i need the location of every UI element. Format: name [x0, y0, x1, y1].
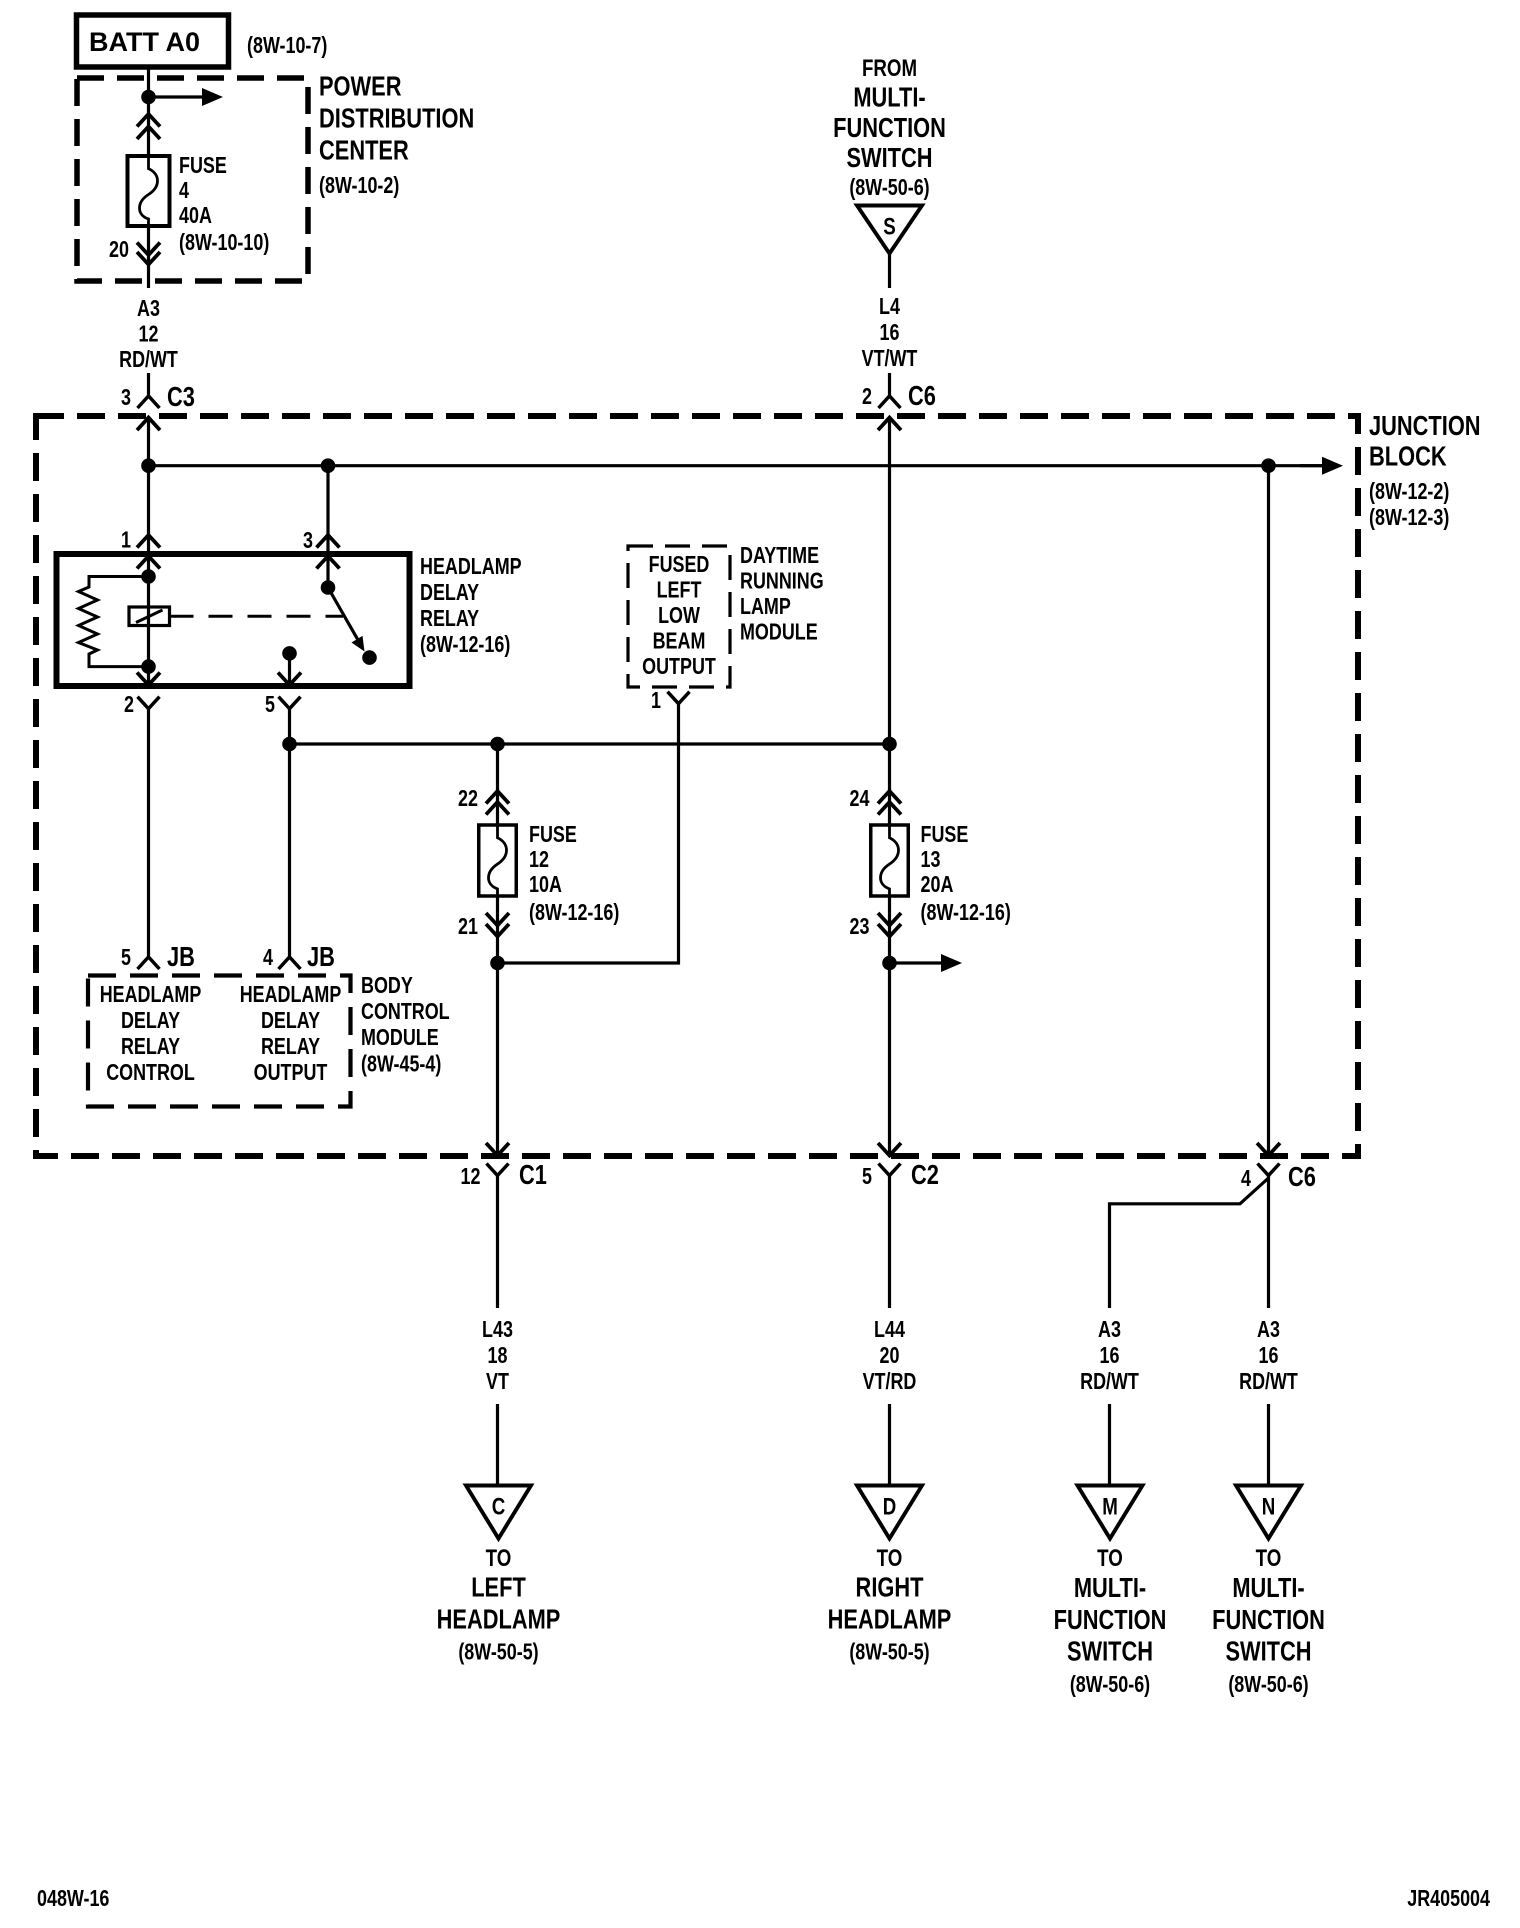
svg-text:VT/WT: VT/WT [862, 346, 918, 372]
wire C1 to left headlamp [496, 1176, 499, 1486]
pin 5 label relay [265, 692, 275, 718]
off-page connector triangle S [857, 206, 922, 254]
connector C1 female fork [487, 1164, 509, 1176]
connector chevrons out of PDC pin 20 [137, 243, 160, 265]
svg-text:(8W-45-4): (8W-45-4) [361, 1051, 441, 1077]
arrow branch from fuse 13 output [890, 954, 963, 972]
power distribution center dashed box [77, 78, 308, 281]
relay pin 3 chevrons [317, 535, 340, 569]
connector C6 female fork top [879, 396, 901, 408]
wire DRL pin 1 down and left to fuse 12 output [498, 704, 679, 963]
wire bus2 down to fuse 12 [496, 744, 499, 825]
label TO LEFT HEADLAMP (8W-50-5) [437, 1545, 561, 1665]
wire label L44 20 VT/RD [863, 1317, 917, 1395]
wire C2 to right headlamp [888, 1176, 891, 1486]
svg-text:(8W-50-6): (8W-50-6) [1228, 1672, 1308, 1698]
svg-text:22: 22 [458, 786, 478, 812]
svg-text:(8W-50-6): (8W-50-6) [1070, 1672, 1150, 1698]
svg-text:RELAY: RELAY [420, 606, 479, 632]
svg-text:OUTPUT: OUTPUT [642, 654, 716, 680]
relay switch contact dot [362, 650, 377, 665]
headlamp delay relay box [57, 554, 410, 686]
svg-text:12: 12 [529, 847, 549, 873]
drawing number JR405004 [1407, 1886, 1490, 1912]
svg-text:BODY: BODY [361, 973, 413, 999]
svg-text:BEAM: BEAM [653, 628, 706, 654]
fuse 12 output junction dot [490, 956, 505, 971]
svg-text:1: 1 [651, 688, 661, 714]
svg-text:40A: 40A [179, 203, 212, 229]
label FUSE 4 40A (8W-10-10) [179, 153, 269, 256]
bus junction dot at relay pin 3 [321, 458, 336, 473]
connector C6 female fork bottom [1258, 1164, 1280, 1176]
svg-text:FUSE: FUSE [921, 822, 969, 848]
bus wire across junction block [149, 464, 1325, 467]
svg-text:L4: L4 [879, 294, 900, 320]
svg-text:(8W-12-3): (8W-12-3) [1369, 505, 1449, 531]
relay pin 1 chevrons [137, 535, 160, 569]
relay coil top junction dot [141, 569, 156, 584]
daytime running lamp module dashed box [628, 546, 730, 687]
wire C6 to multi-function switch N [1267, 1176, 1270, 1486]
svg-text:5: 5 [265, 692, 275, 718]
relay pin 5 female fork [279, 697, 301, 709]
label FROM MULTI-FUNCTION SWITCH (8W-50-6) [833, 55, 946, 201]
svg-text:SWITCH: SWITCH [1067, 1636, 1153, 1667]
wire label A3 12 RD/WT [119, 296, 178, 373]
connector C2 female fork [879, 1164, 901, 1176]
wire fuse 13 down to connector C2 [888, 896, 891, 1156]
svg-text:DELAY: DELAY [261, 1008, 320, 1034]
svg-text:A3: A3 [137, 296, 160, 322]
wire label L4 16 VT/WT [862, 294, 918, 372]
pin 12 label [461, 1164, 481, 1190]
off-page connector triangle D [857, 1486, 922, 1539]
relay pin 5 inner chevron [278, 673, 301, 686]
svg-text:BLOCK: BLOCK [1369, 441, 1447, 472]
svg-text:13: 13 [921, 847, 941, 873]
svg-text:L43: L43 [482, 1317, 513, 1343]
pin 1 label relay [121, 527, 131, 553]
svg-text:C1: C1 [519, 1159, 547, 1190]
pin 2 label [862, 384, 872, 410]
arrow branch to other circuits [149, 88, 224, 106]
svg-text:24: 24 [850, 786, 870, 812]
wire fuse 12 down to connector C1 [496, 896, 499, 1156]
wire relay pin 5 to BCM pin 4 [288, 709, 291, 957]
connector C6 male arrow into junction block [878, 418, 901, 431]
fuse 13 output junction dot [882, 956, 897, 971]
svg-text:16: 16 [880, 320, 900, 346]
svg-text:MULTI-: MULTI- [1074, 1572, 1146, 1603]
body control module dashed box [88, 976, 351, 1107]
svg-text:VT: VT [486, 1369, 509, 1395]
svg-text:JUNCTION: JUNCTION [1369, 410, 1481, 441]
svg-text:16: 16 [1259, 1343, 1279, 1369]
svg-text:CENTER: CENTER [319, 135, 409, 166]
svg-text:SWITCH: SWITCH [1225, 1636, 1311, 1667]
svg-text:RELAY: RELAY [261, 1034, 320, 1060]
svg-text:MODULE: MODULE [740, 619, 818, 645]
svg-text:TO: TO [486, 1545, 512, 1572]
fuse 12 pin 22 chevrons [486, 791, 509, 815]
svg-text:(8W-50-5): (8W-50-5) [458, 1639, 538, 1665]
svg-text:L44: L44 [874, 1317, 905, 1343]
relay pin 5 dot [282, 646, 297, 661]
svg-text:MULTI-: MULTI- [1232, 1572, 1304, 1603]
off-page connector triangle C [466, 1486, 531, 1539]
wire label A3 16 RD/WT right [1239, 1317, 1298, 1395]
bus junction dot left [141, 458, 156, 473]
wire C3 down to relay pin 1 [147, 418, 150, 577]
svg-text:S: S [883, 213, 895, 240]
svg-text:4: 4 [179, 178, 189, 204]
svg-text:C3: C3 [167, 381, 195, 412]
connector JB label left [167, 941, 195, 972]
wire label A3 16 RD/WT left [1080, 1317, 1139, 1395]
pin 20 label [109, 237, 129, 263]
svg-text:4: 4 [263, 945, 273, 971]
wire bus down to relay pin 3 [326, 466, 329, 588]
svg-text:3: 3 [121, 385, 131, 411]
label JUNCTION BLOCK (8W-12-2) (8W-12-3) [1369, 410, 1481, 530]
BCM pin 4 female fork [279, 957, 301, 969]
connector C1 label [519, 1159, 547, 1190]
wire C6 down to fuse 13 [888, 418, 891, 825]
relay coil resistor [79, 577, 149, 667]
svg-text:C6: C6 [908, 380, 936, 411]
connector C3 label [167, 381, 195, 412]
off-page connector triangle M [1078, 1486, 1143, 1539]
label DAYTIME RUNNING LAMP MODULE [740, 543, 824, 645]
svg-text:MODULE: MODULE [361, 1025, 439, 1051]
svg-text:N: N [1262, 1493, 1276, 1520]
svg-text:16: 16 [1100, 1343, 1120, 1369]
label FUSE 12 10A (8W-12-16) [529, 822, 619, 926]
wire bus right down to connector C6 [1267, 466, 1270, 1156]
svg-text:DELAY: DELAY [420, 580, 479, 606]
svg-text:HEADLAMP: HEADLAMP [420, 554, 522, 580]
junction block dashed box [36, 416, 1358, 1156]
svg-text:POWER: POWER [319, 71, 401, 102]
wire branch C6 to multi-function switch M [1110, 1178, 1269, 1485]
pin 4 label JB [263, 945, 273, 971]
svg-text:A3: A3 [1098, 1317, 1121, 1343]
svg-text:20: 20 [880, 1343, 900, 1369]
junction dot under BATT A0 [141, 90, 156, 105]
svg-text:JR405004: JR405004 [1407, 1886, 1490, 1912]
svg-text:FUSE: FUSE [179, 153, 227, 179]
label BODY CONTROL MODULE (8W-45-4) [361, 973, 450, 1077]
svg-text:10A: 10A [529, 872, 562, 898]
label TO MULTI-FUNCTION SWITCH left [1054, 1545, 1167, 1698]
relay coil bottom junction dot [141, 659, 156, 674]
svg-text:FUSE: FUSE [529, 822, 577, 848]
pin 1 label DRL [651, 688, 661, 714]
svg-text:18: 18 [488, 1343, 508, 1369]
label HEADLAMP DELAY RELAY OUTPUT [240, 982, 342, 1086]
svg-text:FUNCTION: FUNCTION [833, 112, 946, 143]
svg-text:2: 2 [124, 692, 134, 718]
svg-text:RELAY: RELAY [121, 1034, 180, 1060]
svg-text:(8W-12-2): (8W-12-2) [1369, 479, 1449, 505]
svg-text:3: 3 [303, 528, 313, 554]
relay pin 5 stub wire [288, 653, 291, 685]
svg-text:A3: A3 [1257, 1317, 1280, 1343]
svg-text:048W-16: 048W-16 [37, 1886, 109, 1912]
label FUSE 13 20A (8W-12-16) [921, 822, 1011, 926]
svg-text:LAMP: LAMP [740, 594, 791, 620]
connector chevrons into fuse 4 [137, 114, 160, 139]
svg-text:4: 4 [1241, 1166, 1251, 1192]
fuse F4 symbol [128, 156, 170, 226]
svg-text:RIGHT: RIGHT [856, 1572, 924, 1603]
connector C6 label bottom [1288, 1161, 1316, 1192]
bus2 junction dot left [282, 737, 297, 752]
svg-text:BATT A0: BATT A0 [89, 27, 200, 57]
label TO RIGHT HEADLAMP (8W-50-5) [828, 1545, 952, 1665]
svg-text:LOW: LOW [658, 603, 700, 629]
fuse F13 symbol [871, 825, 909, 896]
label HEADLAMP DELAY RELAY (8W-12-16) [420, 554, 522, 658]
svg-text:C6: C6 [1288, 1161, 1316, 1192]
svg-text:RD/WT: RD/WT [1080, 1369, 1139, 1395]
svg-text:(8W-10-2): (8W-10-2) [319, 173, 399, 199]
svg-text:C: C [492, 1493, 506, 1520]
relay coil symbol box [129, 607, 170, 626]
svg-text:2: 2 [862, 384, 872, 410]
svg-text:20A: 20A [921, 872, 954, 898]
relay pin 2 inner chevron [137, 673, 160, 686]
svg-text:JB: JB [167, 941, 195, 972]
connector C1 male arrow [486, 1143, 509, 1156]
svg-text:(8W-12-16): (8W-12-16) [921, 900, 1011, 926]
svg-text:5: 5 [121, 945, 131, 971]
connector C2 male arrow [878, 1143, 901, 1156]
svg-text:LEFT: LEFT [471, 1572, 526, 1603]
connector C2 label [911, 1159, 939, 1190]
svg-text:TO: TO [1097, 1545, 1123, 1572]
svg-text:DISTRIBUTION: DISTRIBUTION [319, 103, 474, 134]
label FUSED LEFT LOW BEAM OUTPUT [642, 552, 716, 680]
off-page connector triangle N [1236, 1486, 1301, 1539]
relay coil vertical wire [147, 577, 150, 667]
wire from BATT A0 through fuse 4 [147, 67, 150, 396]
svg-text:HEADLAMP: HEADLAMP [437, 1604, 561, 1635]
pin 5 label JB [121, 945, 131, 971]
BCM pin 5 female fork [138, 957, 160, 969]
relay pin 3 junction dot [321, 580, 336, 595]
svg-text:CONTROL: CONTROL [361, 999, 450, 1025]
reference label (8W-10-7) [247, 33, 327, 59]
bus junction dot right [1261, 458, 1276, 473]
svg-text:FROM: FROM [862, 55, 917, 82]
svg-text:TO: TO [877, 1545, 903, 1572]
page number 048W-16 [37, 1886, 109, 1912]
pin 3 label relay [303, 528, 313, 554]
svg-text:FUNCTION: FUNCTION [1054, 1604, 1167, 1635]
svg-text:20: 20 [109, 237, 129, 263]
svg-text:FUSED: FUSED [649, 552, 710, 578]
svg-text:RD/WT: RD/WT [119, 347, 178, 373]
connector C3 male arrow into junction block [137, 418, 160, 431]
svg-text:(8W-10-7): (8W-10-7) [247, 33, 327, 59]
bus wire relay pin5 to fuses [290, 742, 890, 745]
pin 24 label [850, 786, 870, 812]
pin 23 label [850, 914, 870, 940]
svg-text:(8W-50-5): (8W-50-5) [849, 1639, 929, 1665]
svg-text:21: 21 [458, 914, 478, 940]
svg-text:SWITCH: SWITCH [846, 142, 932, 173]
bus2 junction dot at fuse 13 [882, 737, 897, 752]
svg-text:MULTI-: MULTI- [853, 82, 925, 113]
svg-text:D: D [883, 1493, 897, 1520]
svg-text:12: 12 [461, 1164, 481, 1190]
connector C6 label top [908, 380, 936, 411]
svg-text:(8W-50-6): (8W-50-6) [849, 175, 929, 201]
svg-text:DAYTIME: DAYTIME [740, 543, 819, 569]
connector C3 female fork [138, 396, 160, 408]
wire from triangle S to C6 [888, 254, 891, 397]
relay pin 2 stub wire [147, 667, 150, 685]
label HEADLAMP DELAY RELAY CONTROL [100, 982, 202, 1086]
fuse F12 symbol [479, 825, 517, 896]
svg-text:OUTPUT: OUTPUT [254, 1060, 328, 1086]
battery feed box BATT A0 [77, 15, 229, 67]
wire label L43 18 VT [482, 1317, 513, 1395]
svg-text:HEADLAMP: HEADLAMP [240, 982, 342, 1008]
label TO MULTI-FUNCTION SWITCH right [1212, 1545, 1325, 1698]
label POWER DISTRIBUTION CENTER (8W-10-2) [319, 71, 474, 199]
relay switch arm [328, 588, 365, 652]
pin 22 label [458, 786, 478, 812]
svg-text:FUNCTION: FUNCTION [1212, 1604, 1325, 1635]
svg-text:VT/RD: VT/RD [863, 1369, 917, 1395]
svg-text:(8W-10-10): (8W-10-10) [179, 230, 269, 256]
svg-text:DELAY: DELAY [121, 1008, 180, 1034]
svg-text:RUNNING: RUNNING [740, 568, 824, 594]
fuse 13 pin 24 chevrons [878, 791, 901, 815]
fuse 13 pin 23 chevrons [878, 913, 901, 937]
pin 2 label relay [124, 692, 134, 718]
svg-text:12: 12 [139, 321, 159, 347]
svg-text:5: 5 [862, 1164, 872, 1190]
svg-text:LEFT: LEFT [657, 577, 702, 603]
svg-text:23: 23 [850, 914, 870, 940]
svg-text:M: M [1102, 1493, 1118, 1520]
bus arrow to right side [1300, 457, 1343, 475]
wire relay pin 2 to BCM pin 5 [147, 709, 150, 957]
pin 21 label [458, 914, 478, 940]
svg-text:RD/WT: RD/WT [1239, 1369, 1298, 1395]
relay pin 2 female fork [138, 697, 160, 709]
svg-text:HEADLAMP: HEADLAMP [828, 1604, 952, 1635]
pin 4 label C6 [1241, 1166, 1251, 1192]
svg-text:CONTROL: CONTROL [106, 1060, 195, 1086]
pin 3 label [121, 385, 131, 411]
svg-text:(8W-12-16): (8W-12-16) [529, 900, 619, 926]
svg-text:JB: JB [307, 941, 335, 972]
pin 5 label C2 [862, 1164, 872, 1190]
bus2 junction dot at fuse 12 [490, 737, 505, 752]
fuse 12 pin 21 chevrons [486, 913, 509, 937]
relay dashed actuation link [170, 615, 344, 618]
svg-text:1: 1 [121, 527, 131, 553]
connector JB label right [307, 941, 335, 972]
svg-text:HEADLAMP: HEADLAMP [100, 982, 202, 1008]
connector C6 male arrow bottom [1257, 1143, 1280, 1156]
DRL pin 1 female fork [668, 692, 690, 704]
svg-text:C2: C2 [911, 1159, 939, 1190]
svg-text:(8W-12-16): (8W-12-16) [420, 632, 510, 658]
svg-text:TO: TO [1256, 1545, 1282, 1572]
